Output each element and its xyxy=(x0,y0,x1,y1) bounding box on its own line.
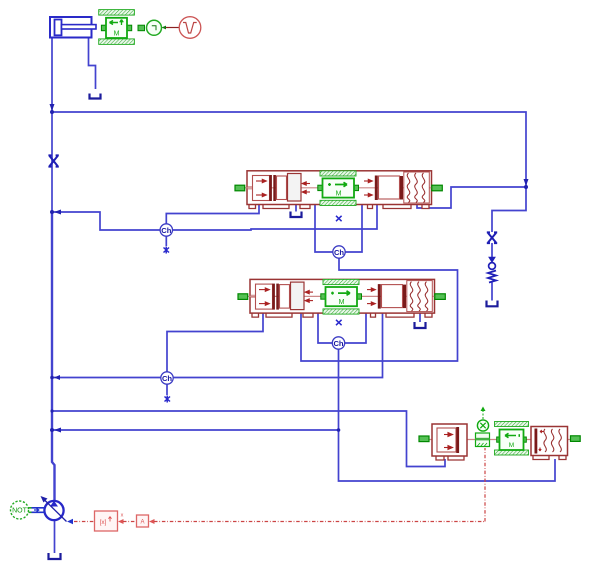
svg-text:M: M xyxy=(509,442,514,449)
svg-text:A: A xyxy=(140,520,144,526)
svg-text:M: M xyxy=(114,31,120,38)
svg-text:NOT: NOT xyxy=(12,508,28,515)
svg-text:Ch: Ch xyxy=(334,248,344,257)
svg-text:x: x xyxy=(121,513,124,519)
svg-text:Ch: Ch xyxy=(333,339,343,348)
svg-text:Ch: Ch xyxy=(161,226,171,235)
svg-text:M: M xyxy=(336,191,342,198)
svg-text:Ch: Ch xyxy=(162,374,172,383)
svg-text:[x]: [x] xyxy=(100,519,107,526)
